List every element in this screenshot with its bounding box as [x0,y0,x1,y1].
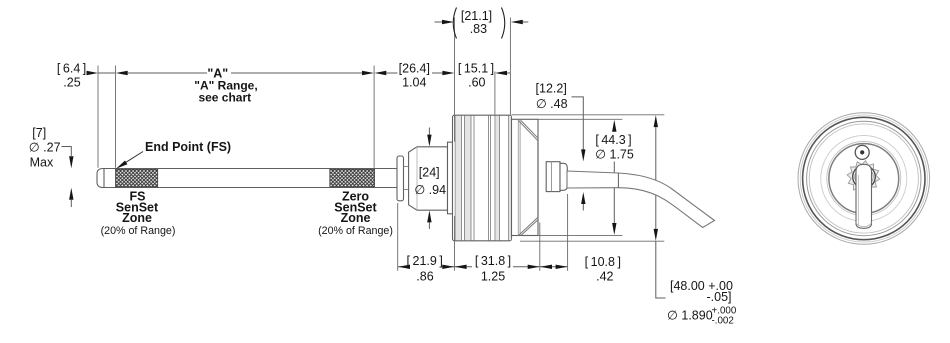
end view screw hole [855,145,869,159]
dimension [31.8] 1.25 [455,254,540,283]
end view knurled adjustment ring [847,161,880,194]
svg-text:1.25: 1.25 [481,270,505,284]
dimension [6.4] .25 [57,61,128,89]
dimension [21.9] .86 [398,254,454,283]
label FS SenSet Zone [101,190,176,238]
svg-text:[24]: [24] [419,166,440,180]
bottom extension line flange face [454,216,456,271]
dimension [48.00] diameter 1.890 tolerance [512,115,737,327]
dimension [15.1] .60 [458,61,510,89]
svg-text:.42: .42 [596,270,613,284]
label End Point (FS) with leader [116,140,231,169]
cable collar [560,163,567,190]
svg-text:End Point (FS): End Point (FS) [145,140,231,154]
svg-text:-.002: -.002 [712,316,734,327]
end view inner face rings [821,136,907,222]
dimension [7] Max rod diameter [29,126,74,207]
bottom extension line cable start [567,194,569,271]
end view shaft collar [853,166,876,189]
svg-text:∅ .27: ∅ .27 [29,141,61,155]
svg-text:[ 21.9 ]: [ 21.9 ] [407,254,443,268]
svg-text:∅ .48: ∅ .48 [536,97,568,111]
svg-text:.25: .25 [63,75,80,89]
flange ring [448,142,453,214]
svg-text:[26.4]: [26.4] [399,61,430,75]
svg-text:.83: .83 [470,22,487,36]
svg-text:[ 10.8 ]: [ 10.8 ] [585,255,621,269]
extension line flange face [454,18,456,142]
extension line hatch2 end [373,66,375,168]
svg-text:1.04: 1.04 [402,75,426,89]
svg-text:Zone: Zone [122,211,152,225]
svg-text:(20% of Range): (20% of Range) [101,225,176,237]
end view outer ring [798,113,930,245]
svg-text:Zone: Zone [341,211,371,225]
extension line thread end [509,18,511,115]
svg-text:[21.1]: [21.1] [461,9,492,23]
svg-text:(20% of Range): (20% of Range) [318,225,393,237]
svg-text:[ 6.4 ]: [ 6.4 ] [57,61,86,75]
dimension [12.2] diameter .48 [536,82,586,211]
label Zero SenSet Zone [318,190,393,238]
dimension [10.8] .42 [540,255,621,283]
svg-text:[7]: [7] [32,126,46,140]
svg-text:[12.2]: [12.2] [536,82,567,96]
svg-text:∅ .94: ∅ .94 [414,183,446,197]
main housing body [512,119,539,235]
dimension [24] diameter .94 [414,128,446,230]
svg-text:.86: .86 [416,270,433,284]
cable [567,171,715,228]
end view core shaft [856,164,872,228]
extension line thread mid [494,72,496,115]
dimension A range [128,67,374,105]
threaded section [453,115,512,241]
dimension ([21.1] .83) reference [435,8,529,39]
svg-text:see chart: see chart [198,90,251,104]
body right bevel [518,121,538,236]
extension line rod tip [97,66,99,168]
extension line hatch1 start [115,66,117,168]
FS SenSet hatch zone [116,169,158,187]
svg-text:∅ 1.75: ∅ 1.75 [595,148,634,162]
bottom extension line washer face [397,203,399,271]
dimension [26.4] 1.04 [374,61,454,89]
svg-text:Max: Max [30,156,54,170]
svg-text:∅ 1.890: ∅ 1.890 [667,309,713,323]
washer at nut front [397,156,404,201]
svg-text:[ 44.3 ]: [ 44.3 ] [595,133,631,147]
end face [537,141,539,217]
Zero SenSet hatch zone [330,169,375,187]
svg-text:[ 15.1 ]: [ 15.1 ] [458,61,494,75]
mounting nut body [404,147,448,210]
dimension [44.3] diameter 1.75 [538,119,634,235]
svg-text:.60: .60 [468,75,485,89]
svg-text:-.05]: -.05] [706,290,731,304]
rod (core shaft) [97,169,397,188]
svg-text:[ 31.8 ]: [ 31.8 ] [475,254,511,268]
bottom extension line end face [539,223,541,271]
connector boss [546,162,560,192]
